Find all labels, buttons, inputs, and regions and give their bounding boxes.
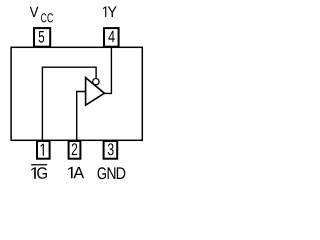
pin 4 number [108, 31, 114, 43]
pin 4 box [104, 28, 119, 47]
pin 2 box [69, 141, 81, 159]
pin 1 box [37, 141, 50, 159]
pin 5 number [39, 31, 44, 43]
label 1G (active low) text [31, 167, 47, 178]
overline for 1G [31, 164, 47, 166]
wire 1Y output: triangle tip right then up to pin 4 [104, 47, 111, 93]
label 1A [68, 167, 84, 178]
pin 5 box [34, 28, 50, 47]
wire 1A input: pin 2 up to triangle [77, 92, 86, 142]
pin 3 number [108, 143, 114, 155]
wire 1G enable: pin 1 up, across, down to bubble [42, 67, 96, 141]
buffer triangle [86, 78, 105, 106]
label GND [97, 167, 125, 179]
pin 1 number [41, 144, 44, 156]
enable bubble [93, 79, 99, 85]
label 1Y [103, 6, 117, 17]
label VCC [30, 7, 53, 23]
package body [11, 47, 142, 140]
pin 3 box [104, 141, 118, 159]
pin 2 number [72, 143, 78, 155]
